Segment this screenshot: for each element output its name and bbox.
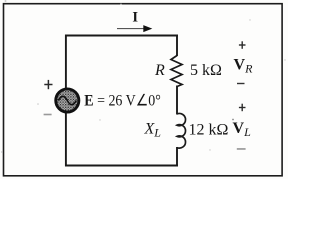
inductor XL	[177, 114, 186, 149]
source plus	[44, 80, 52, 89]
VL plus	[239, 104, 246, 112]
svg-text:12 kΩ: 12 kΩ	[189, 122, 229, 139]
source minus	[44, 114, 52, 116]
wire right lower stub	[176, 147, 178, 166]
current arrow	[117, 25, 152, 32]
VR plus	[239, 41, 246, 49]
VR minus	[237, 83, 245, 84]
svg-text:I: I	[132, 10, 138, 26]
wire left	[65, 35, 67, 167]
svg-text:E = 26 V∠0°: E = 26 V∠0°	[84, 92, 160, 109]
VL minus	[237, 148, 246, 150]
wire top	[65, 35, 178, 37]
wire bottom	[65, 165, 178, 167]
voltage source E	[56, 89, 79, 112]
svg-text:R: R	[154, 62, 165, 79]
svg-text:5 kΩ: 5 kΩ	[190, 62, 222, 79]
wire right upper stub	[176, 35, 178, 57]
wire right middle stub	[176, 86, 178, 115]
scan speck near VL	[232, 119, 234, 121]
resistor R	[171, 56, 182, 87]
